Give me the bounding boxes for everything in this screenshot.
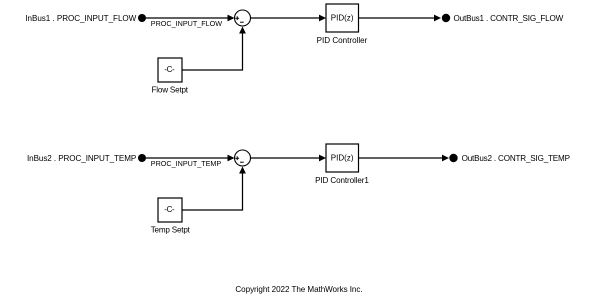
wire PID1 to outport [359,157,444,159]
svg-text:OutBus1 . CONTR_SIG_FLOW: OutBus1 . CONTR_SIG_FLOW [454,14,564,23]
constant block Flow Setpt [158,58,182,82]
svg-text:OutBus2 . CONTR_SIG_TEMP: OutBus2 . CONTR_SIG_TEMP [462,154,570,163]
svg-text:PROC_INPUT_TEMP: PROC_INPUT_TEMP [151,159,222,168]
svg-text:PROC_INPUT_FLOW: PROC_INPUT_FLOW [151,19,222,28]
svg-text:-C-: -C- [164,65,175,74]
output port OutBus2 [449,154,457,162]
output port OutBus1 [442,14,450,22]
svg-text:Copyright 2022 The MathWorks I: Copyright 2022 The MathWorks Inc. [235,285,362,294]
svg-text:InBus2 . PROC_INPUT_TEMP: InBus2 . PROC_INPUT_TEMP [27,154,136,163]
svg-text:Flow Setpt: Flow Setpt [152,86,189,95]
svg-text:PID(z): PID(z) [331,14,354,23]
PID block U2 [326,144,359,172]
svg-text:Temp Setpt: Temp Setpt [151,226,191,235]
sum block Sum2 [235,150,251,166]
svg-text:-C-: -C- [164,205,175,214]
input port InBus2 [138,154,146,162]
svg-text:PID Controller: PID Controller [317,36,368,45]
constant block Temp Setpt [158,198,182,222]
svg-text:InBus1 . PROC_INPUT_FLOW: InBus1 . PROC_INPUT_FLOW [25,14,136,23]
PID block U1 [326,4,359,32]
wire Temp Setpt to sum [182,172,243,210]
wire sum to PID [251,17,321,19]
wire sum to PID1 [251,157,321,159]
sum block Sum1 [235,10,251,26]
svg-text:PID Controller1: PID Controller1 [315,176,369,185]
wire PROC_INPUT_TEMP [146,157,229,159]
wire PROC_INPUT_FLOW [146,17,229,19]
svg-text:PID(z): PID(z) [331,154,354,163]
wire PID to outport [359,17,436,19]
input port InBus1 [138,14,146,22]
wire Flow Setpt to sum [182,32,243,70]
